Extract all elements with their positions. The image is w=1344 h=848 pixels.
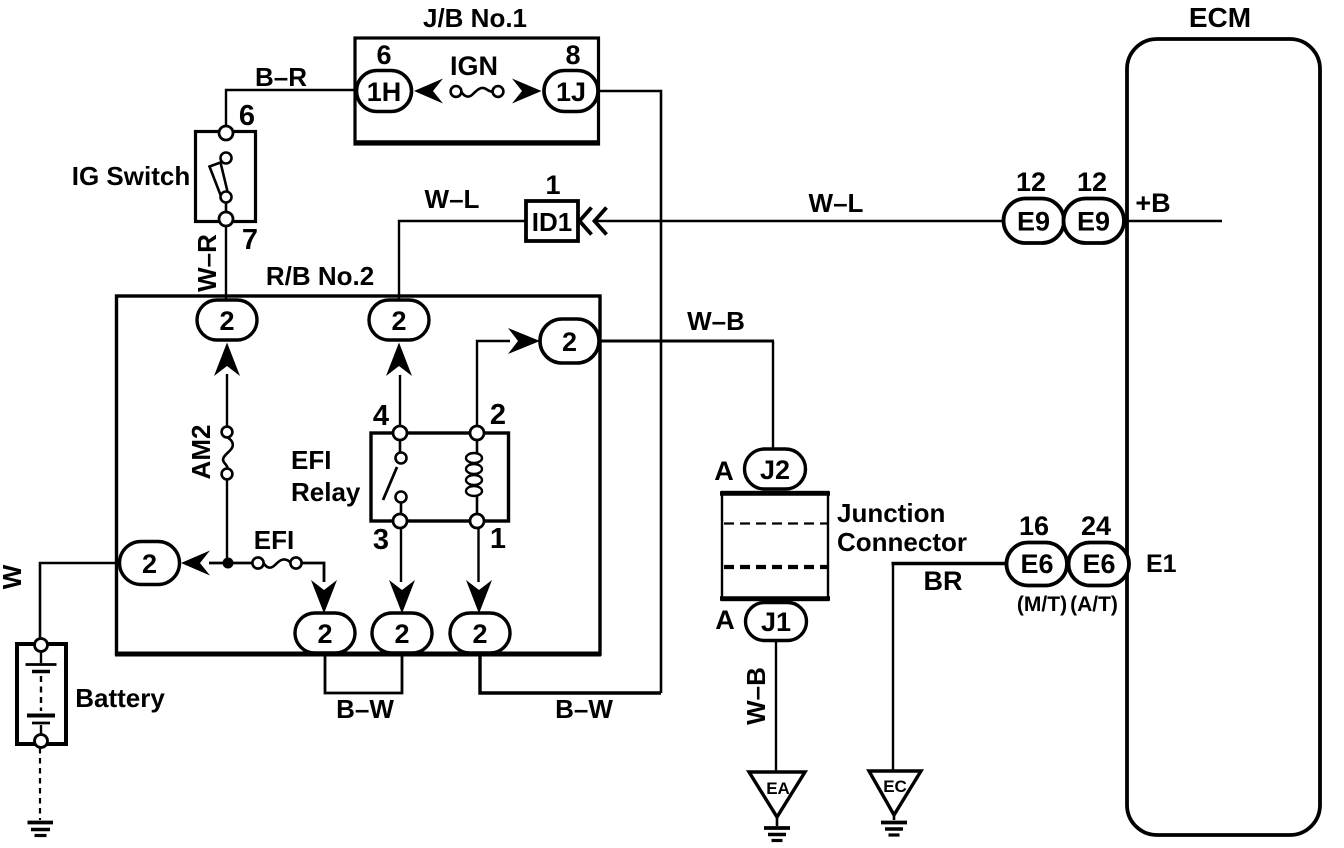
svg-text:2: 2 bbox=[472, 619, 487, 649]
wire battery to ground bbox=[39, 748, 41, 820]
connector E6 pin 16 bbox=[1007, 543, 1068, 586]
wire relay pin3 down bbox=[400, 528, 402, 582]
svg-text:6: 6 bbox=[376, 40, 391, 70]
arrow up into top-mid 2 bbox=[386, 343, 412, 377]
svg-text:J2: J2 bbox=[760, 455, 790, 485]
svg-text:Relay: Relay bbox=[291, 477, 361, 507]
svg-text:EC: EC bbox=[883, 777, 907, 796]
svg-text:EFI: EFI bbox=[254, 525, 294, 555]
svg-text:IGN: IGN bbox=[450, 51, 498, 81]
svg-text:B–W: B–W bbox=[555, 694, 613, 724]
svg-text:W–R: W–R bbox=[192, 234, 222, 292]
chevrons at ID1 bbox=[580, 208, 607, 235]
connector J1 bbox=[746, 603, 807, 641]
connector E6 pin 24 bbox=[1069, 543, 1130, 586]
wire relay pin4 up bbox=[399, 375, 401, 426]
arrow into 1H bbox=[414, 79, 443, 104]
svg-text:1H: 1H bbox=[367, 77, 402, 107]
wire B-W loop (bottom left) bbox=[325, 654, 402, 693]
svg-text:2: 2 bbox=[391, 306, 406, 336]
svg-text:A: A bbox=[715, 605, 735, 635]
svg-text:1: 1 bbox=[490, 523, 506, 555]
svg-text:IG Switch: IG Switch bbox=[72, 161, 190, 191]
connector 2 (bottom mid) bbox=[372, 613, 432, 653]
svg-text:Battery: Battery bbox=[75, 683, 165, 713]
wire +B inside ECM bbox=[1124, 220, 1222, 222]
wire W-L (E9 to ID1) bbox=[596, 220, 1004, 222]
svg-text:W–L: W–L bbox=[425, 184, 480, 214]
ground EA bbox=[749, 772, 805, 841]
svg-text:2: 2 bbox=[490, 399, 506, 431]
Junction Connector box bbox=[720, 492, 830, 600]
svg-text:2: 2 bbox=[219, 306, 234, 336]
relay pin 2 bbox=[470, 399, 506, 440]
connector 2 (bottom left) bbox=[295, 613, 355, 653]
wire relay pin1 down bbox=[477, 528, 479, 582]
svg-text:BR: BR bbox=[924, 566, 963, 596]
svg-text:(M/T): (M/T) bbox=[1017, 593, 1067, 616]
svg-text:W–L: W–L bbox=[809, 188, 864, 218]
fuse EFI bbox=[209, 557, 302, 568]
connector E9 pin 12 (right) bbox=[1064, 199, 1125, 244]
wire W-R (switch to R/B No.2) bbox=[225, 226, 227, 300]
wire BR (EC ground to E6) bbox=[892, 562, 1009, 771]
wire W (oval 2 to battery) bbox=[40, 563, 119, 638]
ground (battery) bbox=[28, 823, 54, 836]
svg-text:(A/T): (A/T) bbox=[1070, 593, 1118, 616]
svg-text:A: A bbox=[714, 456, 734, 486]
relay pin 3 bbox=[373, 514, 407, 556]
svg-text:2: 2 bbox=[562, 327, 577, 357]
Battery bbox=[17, 639, 66, 748]
svg-text:1: 1 bbox=[545, 170, 560, 200]
EFI Relay label bbox=[291, 445, 361, 507]
EFI Relay box bbox=[371, 433, 509, 521]
wire AM2 branch lower bbox=[226, 479, 228, 560]
svg-text:6: 6 bbox=[239, 100, 255, 132]
svg-text:12: 12 bbox=[1016, 167, 1046, 197]
ECM module box bbox=[1127, 39, 1320, 835]
svg-text:Junction: Junction bbox=[837, 498, 945, 528]
connector 2 (left, battery feed) bbox=[120, 542, 180, 585]
svg-text:+B: +B bbox=[1135, 188, 1170, 218]
relay contact bbox=[383, 440, 407, 514]
relay pin 1 bbox=[470, 514, 506, 555]
relay pin 4 bbox=[373, 400, 407, 440]
J/B No.1 box bbox=[355, 38, 599, 144]
ground EC bbox=[869, 771, 921, 835]
node junction dot (AM2/EFI) bbox=[223, 558, 234, 569]
arrow into 1J bbox=[512, 79, 542, 104]
arrow right into oval 2 (W-B) bbox=[508, 328, 540, 354]
svg-text:B–W: B–W bbox=[336, 694, 394, 724]
wire 1J to B-W net (vertical) bbox=[599, 91, 662, 693]
svg-text:24: 24 bbox=[1081, 511, 1111, 541]
svg-text:7: 7 bbox=[242, 224, 258, 256]
connector 2 (top mid, relay pin4) bbox=[369, 300, 429, 340]
Junction Connector label bbox=[837, 498, 967, 557]
connector 2 (top left, AM2) bbox=[197, 300, 257, 340]
R/B No.2 box bbox=[115, 296, 601, 654]
wire W-L (ID1 to R/B No.2) bbox=[399, 221, 526, 302]
wire B-R (IG switch to 1H) bbox=[226, 90, 356, 126]
svg-text:EA: EA bbox=[766, 779, 790, 798]
svg-text:2: 2 bbox=[394, 619, 409, 649]
svg-text:EFI: EFI bbox=[291, 445, 331, 475]
svg-text:W–B: W–B bbox=[741, 667, 771, 725]
IG Switch bbox=[196, 126, 256, 226]
svg-text:R/B No.2: R/B No.2 bbox=[266, 261, 374, 291]
svg-text:12: 12 bbox=[1077, 167, 1107, 197]
svg-text:E6: E6 bbox=[1082, 549, 1115, 579]
svg-text:AM2: AM2 bbox=[186, 425, 216, 480]
arrow down into bottom 2 (EFI) bbox=[311, 580, 337, 614]
arrow up into top-left 2 bbox=[214, 343, 240, 377]
svg-text:16: 16 bbox=[1019, 511, 1049, 541]
svg-text:J1: J1 bbox=[761, 607, 791, 637]
ID1 connector bbox=[526, 201, 578, 241]
arrow left into oval 2 (battery feed) bbox=[181, 551, 210, 576]
wire relay pin2 to W-B connector bbox=[477, 341, 510, 426]
relay coil bbox=[466, 440, 482, 514]
svg-text:ECM: ECM bbox=[1189, 2, 1251, 33]
svg-text:1J: 1J bbox=[556, 77, 586, 107]
svg-text:J/B No.1: J/B No.1 bbox=[423, 3, 527, 33]
svg-text:E6: E6 bbox=[1020, 549, 1053, 579]
arrow down into bottom 2 (pin1) bbox=[466, 580, 492, 614]
svg-text:2: 2 bbox=[317, 619, 332, 649]
svg-text:W–B: W–B bbox=[687, 306, 745, 336]
svg-text:B–R: B–R bbox=[255, 62, 307, 92]
wire W-B (J1 to EA ground) bbox=[775, 640, 777, 772]
wire AM2 branch upper bbox=[226, 374, 228, 427]
connector 1J bbox=[544, 71, 598, 112]
connector 1H bbox=[357, 71, 412, 112]
connector J2 bbox=[745, 449, 806, 489]
connector 2 (right, W-B) bbox=[540, 319, 599, 363]
svg-text:2: 2 bbox=[142, 549, 157, 579]
svg-text:8: 8 bbox=[565, 40, 580, 70]
fuse IGN bbox=[450, 51, 503, 97]
connector 2 (bottom right) bbox=[450, 613, 510, 653]
svg-text:E1: E1 bbox=[1146, 550, 1177, 578]
svg-text:3: 3 bbox=[373, 524, 389, 556]
svg-text:E9: E9 bbox=[1017, 207, 1050, 237]
svg-text:4: 4 bbox=[373, 400, 389, 432]
wire W-B (oval 2 to J2) bbox=[599, 341, 774, 451]
svg-text:Connector: Connector bbox=[837, 527, 967, 557]
wire B-W (bottom right to 1J line) bbox=[480, 654, 661, 693]
arrow down into bottom 2 (pin3) bbox=[389, 580, 415, 614]
svg-text:W: W bbox=[0, 564, 27, 589]
connector E9 pin 12 (left) bbox=[1004, 199, 1065, 244]
svg-text:E9: E9 bbox=[1077, 207, 1110, 237]
wire EFI to bottom connector bbox=[302, 563, 325, 582]
svg-text:ID1: ID1 bbox=[532, 207, 572, 237]
fuse AM2 bbox=[222, 427, 233, 480]
